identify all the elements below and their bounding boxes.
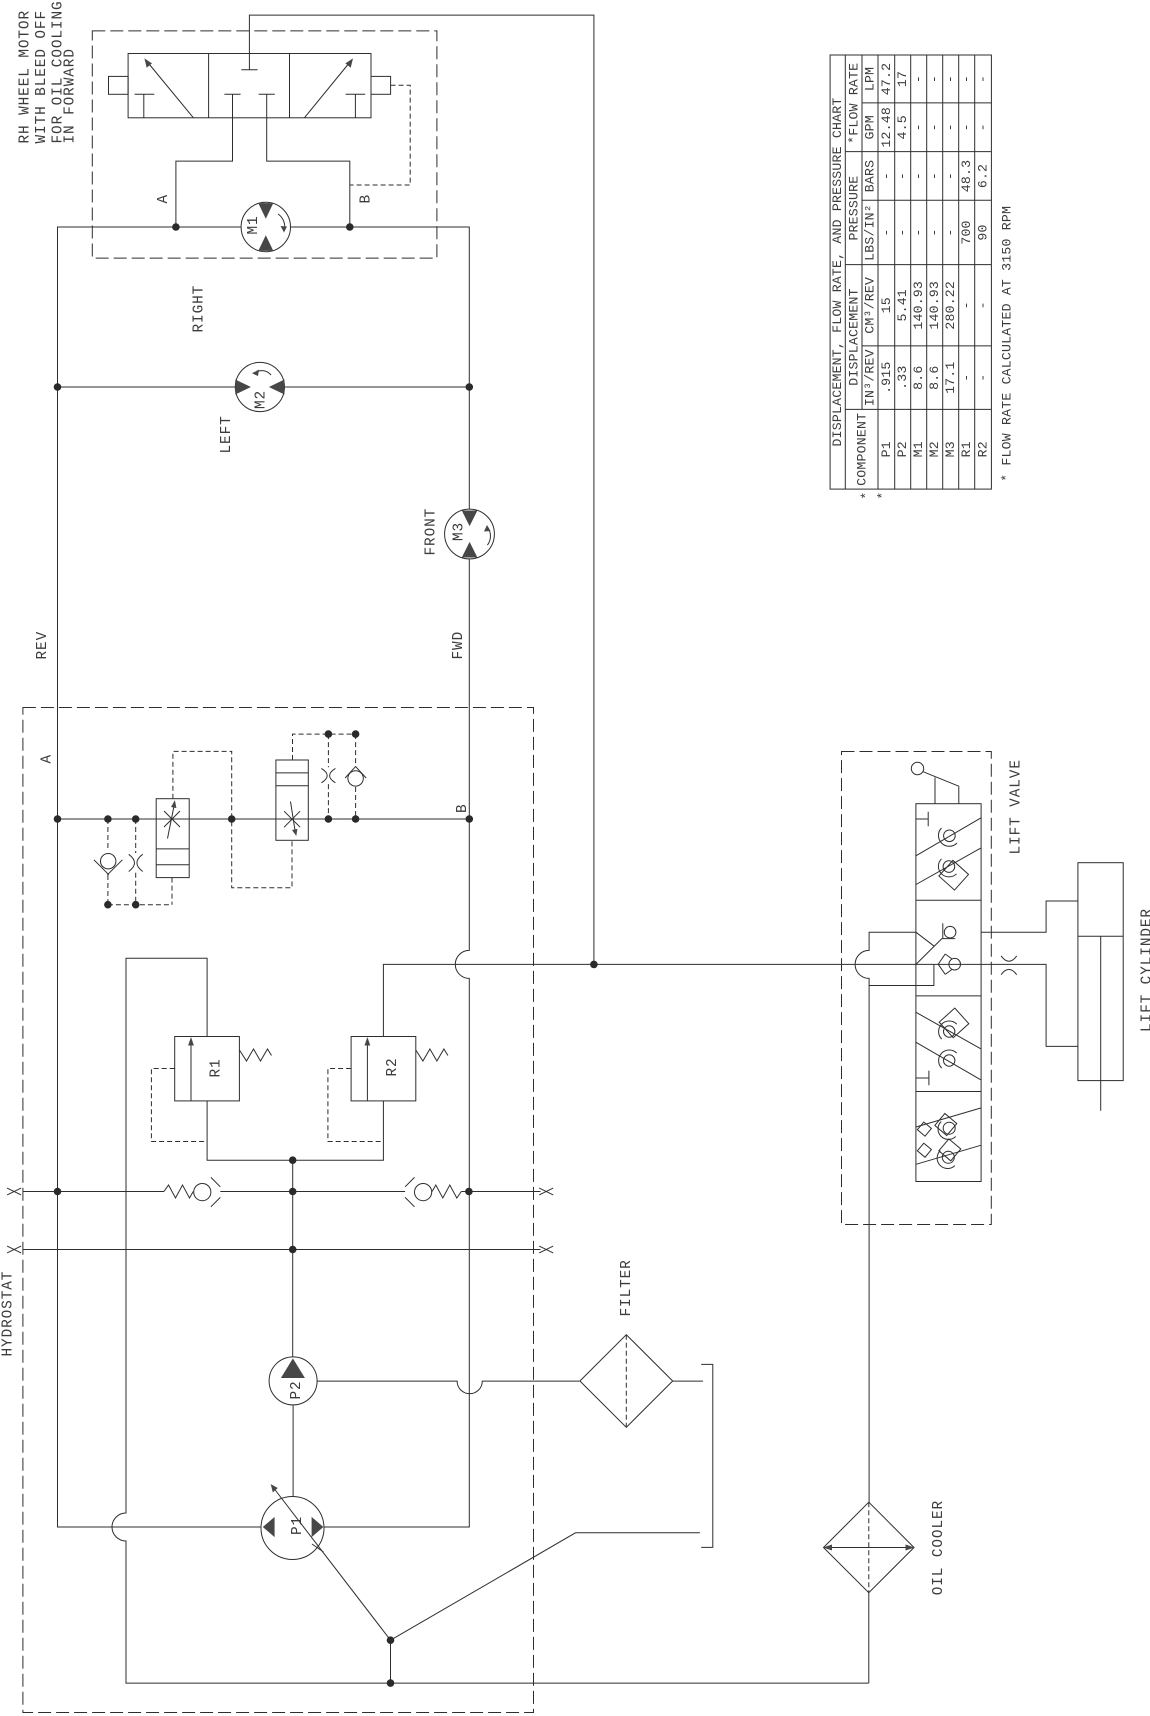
node drain 1 bbox=[387, 1636, 395, 1644]
svg-text:LIFT CYLINDER: LIFT CYLINDER bbox=[1140, 908, 1150, 1032]
node charge center bbox=[289, 1188, 297, 1196]
motor M3 bbox=[445, 509, 495, 559]
node top2 bbox=[352, 730, 360, 738]
valve V1 left section blocked port bbox=[135, 94, 155, 118]
svg-text:R2: R2 bbox=[976, 441, 991, 457]
svg-text:LIFT VALVE: LIFT VALVE bbox=[1009, 759, 1025, 854]
svg-text:R1: R1 bbox=[959, 441, 974, 457]
svg-text:P2: P2 bbox=[895, 441, 910, 457]
svg-text:HYDROSTAT: HYDROSTAT bbox=[1, 1271, 17, 1357]
wire charge line 1 right bbox=[461, 1191, 540, 1193]
svg-text:-: - bbox=[911, 228, 926, 236]
node line2 center bbox=[289, 1246, 297, 1254]
wire charge line 1 mid bbox=[220, 1191, 405, 1193]
node line3 bbox=[325, 815, 333, 823]
svg-text:BARS: BARS bbox=[863, 160, 878, 192]
svg-text:4.5: 4.5 bbox=[895, 115, 910, 139]
lift valve S1 blocked port bbox=[916, 812, 928, 827]
check valve CK2 bbox=[345, 766, 366, 786]
orifice OR1 bbox=[129, 854, 143, 871]
table row M1 bbox=[911, 75, 926, 457]
pilot dashed line to valve V1 right actuator bbox=[350, 85, 410, 185]
svg-text:LEFT: LEFT bbox=[219, 415, 235, 453]
table row P1 bbox=[879, 63, 894, 458]
pilot dashed loop FC1 bbox=[173, 751, 292, 887]
lift valve S2 spool paths bbox=[916, 932, 942, 964]
wire cooler bottom bbox=[868, 1593, 870, 1683]
spring check right bbox=[405, 1177, 461, 1206]
wire lift return down to cooler with hop bbox=[855, 932, 916, 1502]
lift cylinder bbox=[1078, 863, 1123, 1111]
relief valve R1 bbox=[175, 1037, 272, 1101]
wire M1 line right bbox=[291, 227, 470, 387]
svg-text:A: A bbox=[40, 754, 56, 764]
pump P1 bbox=[261, 1484, 391, 1640]
wire P2 bottom to P1 bbox=[292, 1405, 294, 1497]
node A1 bbox=[172, 223, 180, 231]
svg-text:M2: M2 bbox=[927, 441, 942, 457]
svg-text:REV: REV bbox=[35, 631, 51, 660]
wire P2 right to filter with hop bbox=[317, 1381, 579, 1394]
node FC1 tap bbox=[228, 815, 236, 823]
filter F1 bbox=[580, 1335, 673, 1428]
wire A-B charge line bbox=[58, 818, 470, 820]
wire charge line 1 left bbox=[23, 1191, 164, 1193]
node drain 2 bbox=[387, 1679, 395, 1687]
svg-text:17.1: 17.1 bbox=[943, 361, 958, 393]
svg-text:OIL COOLER: OIL COOLER bbox=[931, 1500, 947, 1595]
table row P2 bbox=[895, 71, 910, 458]
svg-text:-: - bbox=[943, 228, 958, 236]
wire center drop to P2 bbox=[292, 1160, 294, 1357]
plug X left 1 bbox=[7, 1188, 21, 1195]
svg-text:P1: P1 bbox=[290, 1516, 306, 1535]
svg-text:-: - bbox=[879, 172, 894, 180]
pump P2 bbox=[269, 1357, 317, 1405]
node lift line tee bbox=[590, 961, 598, 969]
wire M2 line left bbox=[58, 386, 236, 388]
svg-text:B: B bbox=[359, 194, 375, 204]
wire M2 line right bbox=[285, 386, 470, 388]
wire pilot from valve V1 top bbox=[249, 15, 594, 964]
node M2 left bbox=[54, 383, 62, 391]
wire M1 line left bbox=[58, 227, 262, 1527]
node B bbox=[466, 815, 474, 823]
svg-text:* FLOW RATE CALCULATED AT 3150: * FLOW RATE CALCULATED AT 3150 RPM bbox=[1000, 206, 1015, 482]
svg-text:-: - bbox=[943, 172, 958, 180]
svg-text:5.41: 5.41 bbox=[895, 289, 910, 321]
note RH wheel motor bbox=[18, 0, 79, 143]
svg-text:*: * bbox=[859, 491, 874, 499]
svg-text:47.2: 47.2 bbox=[879, 63, 894, 95]
enclosure RH wheel motor circuit bbox=[92, 31, 437, 258]
check valve CK1 bbox=[94, 854, 123, 875]
svg-text:8.6: 8.6 bbox=[927, 366, 942, 390]
svg-text:-: - bbox=[959, 123, 974, 131]
lever handle bbox=[911, 762, 959, 803]
valve V1 directional body bbox=[109, 54, 391, 118]
svg-text:FILTER: FILTER bbox=[619, 1259, 635, 1316]
orifice OR2 bbox=[321, 768, 335, 782]
table unit headers bbox=[863, 67, 878, 406]
wire R2 bottom bbox=[293, 1101, 384, 1160]
svg-text:-: - bbox=[943, 123, 958, 131]
table row M2 bbox=[927, 75, 942, 457]
orifice OR3 bbox=[1001, 956, 1017, 975]
node charge right bbox=[465, 1188, 473, 1196]
table row R2 bbox=[976, 75, 991, 457]
node B1 bbox=[346, 223, 354, 231]
lift valve S4 path 1 bbox=[916, 1108, 981, 1139]
svg-text:.915: .915 bbox=[879, 361, 894, 393]
svg-text:280.22: 280.22 bbox=[943, 281, 958, 330]
svg-text:-: - bbox=[911, 123, 926, 131]
svg-text:-: - bbox=[911, 172, 926, 180]
pilot drop check branch bbox=[107, 819, 109, 905]
wire port B of valve V1 bbox=[267, 118, 350, 227]
enclosure hydrostat bbox=[23, 708, 534, 1713]
svg-text:-: - bbox=[959, 75, 974, 83]
svg-text:48.3: 48.3 bbox=[959, 160, 974, 192]
svg-text:-: - bbox=[927, 172, 942, 180]
wire lift valve upper port to cylinder bbox=[981, 901, 1078, 932]
svg-text:12.48: 12.48 bbox=[879, 107, 894, 148]
svg-text:FRONT: FRONT bbox=[424, 508, 440, 556]
pilot drop check branch top bbox=[355, 734, 357, 819]
oil cooler OC1 bbox=[823, 1502, 915, 1593]
valve V1 center pilot port bbox=[241, 54, 257, 70]
lift valve S3 path 1 bbox=[916, 1008, 981, 1049]
node relief junction bbox=[289, 1156, 297, 1164]
plug X right 1 bbox=[539, 1188, 553, 1195]
lift valve S2 check lower bbox=[938, 954, 960, 974]
pilot dashed R1 bbox=[151, 1069, 207, 1142]
node drop1 bbox=[104, 815, 112, 823]
table footnote asterisks bbox=[859, 491, 891, 499]
svg-text:-: - bbox=[959, 374, 974, 382]
wire R2 top to lift line bbox=[383, 964, 1078, 1046]
node drop2 bbox=[132, 815, 140, 823]
relief valve R2 bbox=[351, 1037, 448, 1101]
node A bbox=[54, 815, 62, 823]
pilot drop orifice branch top bbox=[327, 734, 329, 819]
svg-text:GPM: GPM bbox=[863, 115, 878, 139]
lift valve S3 blocked port bbox=[916, 1071, 929, 1086]
svg-text:-: - bbox=[976, 374, 991, 382]
svg-text:PRESSURE: PRESSURE bbox=[846, 176, 861, 241]
flow control valve FC1 bbox=[156, 799, 189, 878]
svg-text:LPM: LPM bbox=[863, 67, 878, 91]
plug X left 2 bbox=[7, 1246, 21, 1253]
wire port A of valve V1 bbox=[176, 118, 233, 227]
lift valve body bbox=[916, 804, 981, 1182]
node bus2 bbox=[132, 901, 140, 909]
wire R1 bottom bbox=[207, 1101, 293, 1160]
lift valve S1 path 2 bbox=[916, 848, 981, 890]
svg-text:R2: R2 bbox=[385, 1057, 401, 1076]
svg-text:6.2: 6.2 bbox=[976, 164, 991, 188]
wire lift return bottom U bbox=[869, 964, 934, 985]
lift valve S3 path 2 bbox=[916, 1042, 981, 1080]
svg-text:-: - bbox=[959, 301, 974, 309]
valve V1 left section arrow bbox=[144, 58, 193, 117]
node M2 right bbox=[466, 383, 474, 391]
node line4 bbox=[352, 815, 360, 823]
table row R1 bbox=[959, 75, 974, 457]
svg-text:A: A bbox=[156, 194, 172, 204]
svg-text:COMPONENT: COMPONENT bbox=[854, 413, 869, 486]
pilot drop to bus left bbox=[108, 878, 172, 905]
svg-text:90: 90 bbox=[976, 224, 991, 240]
node bus1 bbox=[104, 901, 112, 909]
svg-text:R1: R1 bbox=[209, 1058, 225, 1077]
svg-text:P2: P2 bbox=[289, 1380, 305, 1399]
lift valve S1 path 1 bbox=[916, 818, 981, 856]
table displacement chart bbox=[830, 55, 991, 489]
svg-text:DISPLACEMENT, FLOW RATE, AND P: DISPLACEMENT, FLOW RATE, AND PRESSURE CH… bbox=[830, 98, 845, 447]
wire filter outlet bbox=[673, 1380, 703, 1382]
table row M3 bbox=[943, 75, 958, 457]
node charge left bbox=[54, 1188, 62, 1196]
wire return diagonal to tank bbox=[391, 1533, 700, 1640]
svg-text:17: 17 bbox=[895, 71, 910, 87]
svg-text:LBS/IN²: LBS/IN² bbox=[863, 204, 878, 261]
valve V1 right section blocked port bbox=[346, 94, 366, 118]
svg-text:15: 15 bbox=[879, 297, 894, 313]
node top1 bbox=[325, 730, 333, 738]
svg-text:140.93: 140.93 bbox=[911, 281, 926, 330]
svg-text:-: - bbox=[943, 75, 958, 83]
svg-text:M1: M1 bbox=[246, 215, 262, 234]
svg-text:8.6: 8.6 bbox=[911, 366, 926, 390]
lift valve S4 path 2 bbox=[916, 1139, 981, 1169]
svg-text:700: 700 bbox=[959, 220, 974, 244]
svg-text:M3: M3 bbox=[452, 522, 468, 541]
wire R1 top loop bbox=[112, 958, 869, 1683]
svg-text:*: * bbox=[876, 491, 891, 499]
pilot drop orifice branch bbox=[135, 819, 137, 905]
pilot dashed FC2 top bbox=[293, 734, 356, 760]
svg-text:-: - bbox=[927, 228, 942, 236]
enclosure lift valve bbox=[842, 752, 992, 1225]
table group headers bbox=[846, 63, 869, 486]
svg-text:RH WHEEL MOTOR: RH WHEEL MOTOR bbox=[18, 10, 34, 144]
svg-text:B: B bbox=[455, 803, 471, 813]
svg-text:CM³/REV: CM³/REV bbox=[863, 277, 878, 334]
svg-text:-: - bbox=[895, 172, 910, 180]
svg-text:WITH BLEED OFF: WITH BLEED OFF bbox=[34, 10, 50, 144]
pilot dashed R2 bbox=[328, 1069, 384, 1142]
svg-text:-: - bbox=[976, 123, 991, 131]
svg-text:M2: M2 bbox=[254, 390, 270, 409]
lift valve S2 check upper bbox=[942, 923, 956, 938]
svg-text:-: - bbox=[927, 123, 942, 131]
svg-text:-: - bbox=[976, 75, 991, 83]
svg-text:*FLOW RATE: *FLOW RATE bbox=[846, 63, 861, 144]
wire charge line 2 bbox=[23, 1249, 541, 1251]
flow control valve FC2 bbox=[276, 760, 308, 840]
reservoir tank bbox=[701, 1364, 713, 1547]
svg-text:-: - bbox=[976, 301, 991, 309]
svg-text:-: - bbox=[911, 75, 926, 83]
svg-text:RIGHT: RIGHT bbox=[192, 285, 208, 333]
svg-text:IN³/REV: IN³/REV bbox=[863, 349, 878, 406]
svg-text:DISPLACEMENT: DISPLACEMENT bbox=[846, 288, 861, 385]
valve V1 center blocked ports bbox=[224, 94, 274, 118]
svg-text:.33: .33 bbox=[895, 366, 910, 390]
svg-text:140.93: 140.93 bbox=[927, 281, 942, 330]
svg-text:-: - bbox=[879, 228, 894, 236]
wire FWD mid with hop over lift line bbox=[324, 559, 469, 1527]
svg-text:P1: P1 bbox=[879, 441, 894, 457]
motor M2 bbox=[235, 362, 284, 411]
svg-text:IN FORWARD: IN FORWARD bbox=[63, 48, 79, 143]
plug X right 2 bbox=[539, 1246, 553, 1253]
valve V1 right section arrow bbox=[304, 58, 353, 117]
wire drain stub bbox=[390, 1640, 392, 1683]
spring check left bbox=[164, 1177, 220, 1206]
motor M1 bbox=[241, 202, 290, 251]
svg-text:-: - bbox=[927, 75, 942, 83]
svg-text:-: - bbox=[895, 228, 910, 236]
svg-text:M3: M3 bbox=[943, 441, 958, 457]
svg-text:M1: M1 bbox=[911, 441, 926, 457]
wire FWD upper bbox=[468, 387, 470, 509]
svg-text:FWD: FWD bbox=[451, 631, 467, 660]
